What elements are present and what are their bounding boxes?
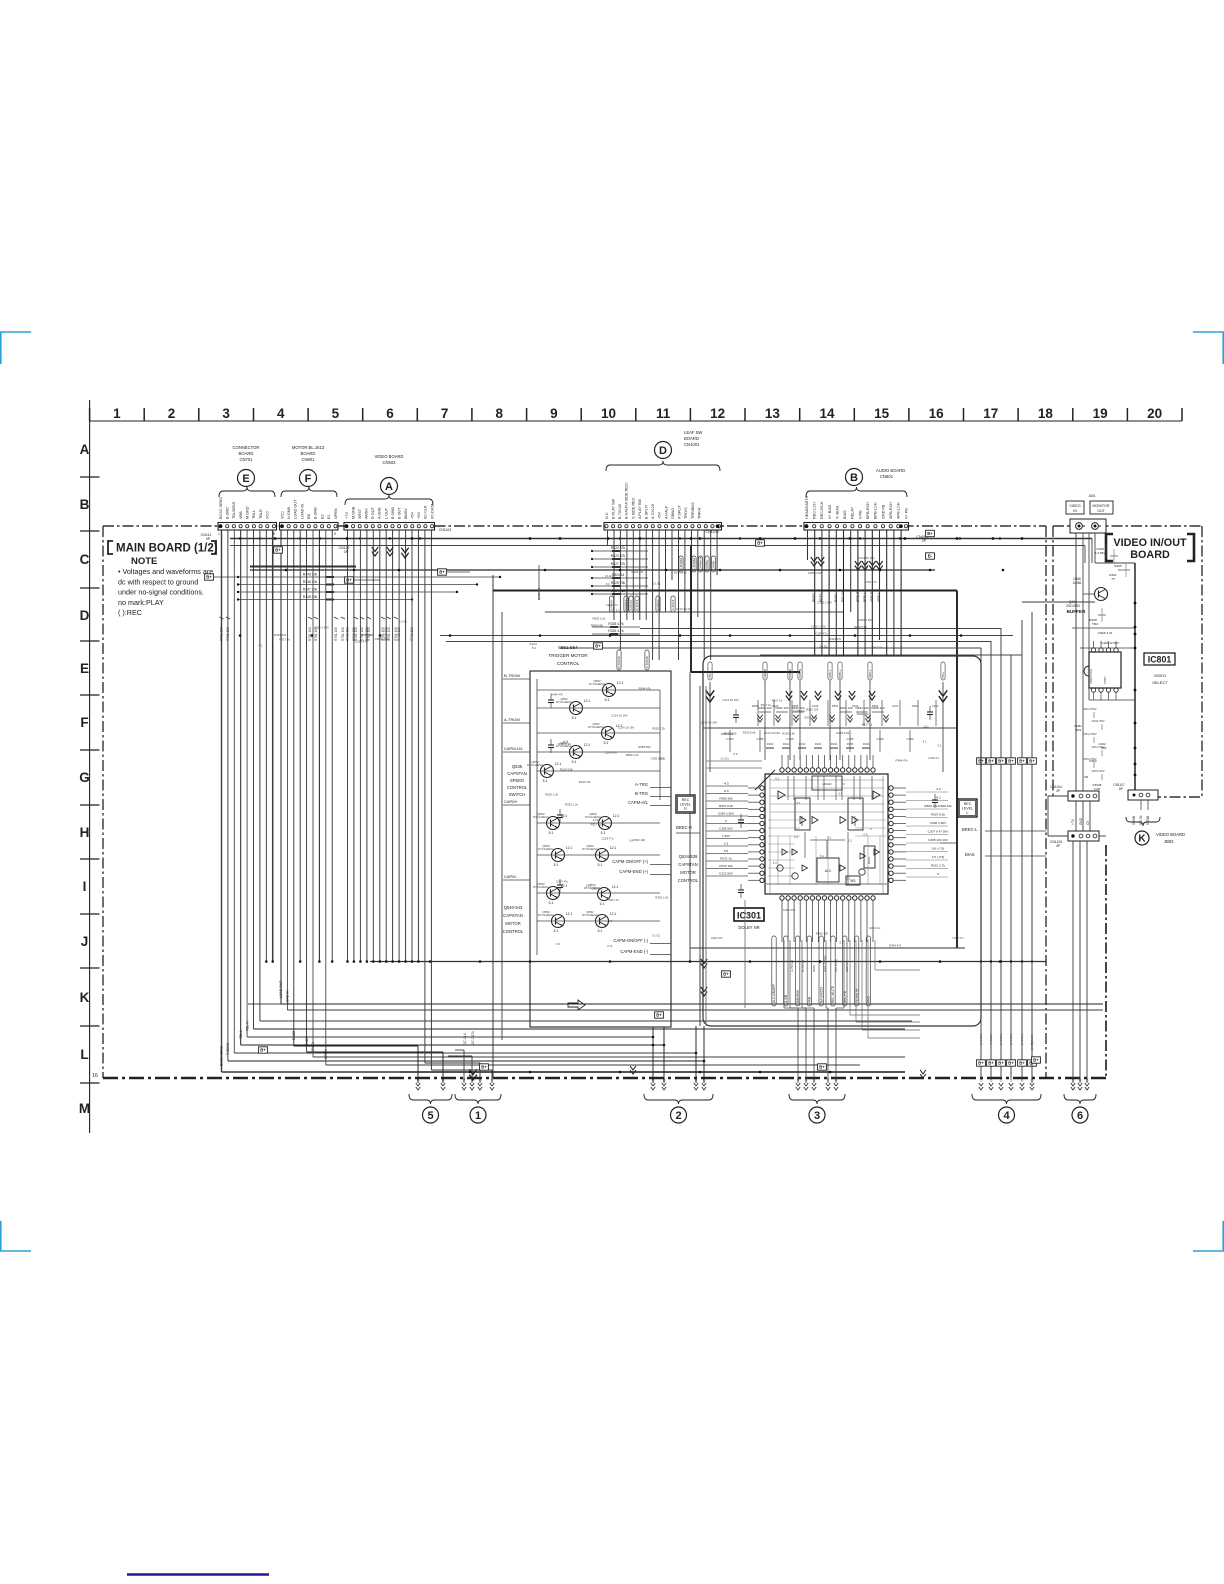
svg-text:R761 150: R761 150 <box>308 627 312 641</box>
svg-text:R219 5.6k: R219 5.6k <box>854 625 867 629</box>
svg-text:XRST: XRST <box>358 508 362 519</box>
svg-text:B+: B+ <box>978 1061 984 1066</box>
svg-text:C310 0.1: C310 0.1 <box>591 886 603 890</box>
svg-text:2: 2 <box>675 1110 681 1122</box>
svg-text:0.1 E1: 0.1 E1 <box>721 757 730 761</box>
svg-text:(A-5.5V): (A-5.5V) <box>989 1034 993 1045</box>
svg-text:5.1: 5.1 <box>259 644 263 648</box>
svg-text:BIAS: BIAS <box>843 510 847 519</box>
svg-text:A-HALF: A-HALF <box>656 599 660 610</box>
svg-text:R344 47k: R344 47k <box>274 633 287 637</box>
svg-text:CAPM-H/L: CAPM-H/L <box>699 555 703 570</box>
svg-text:R346: R346 <box>863 742 870 746</box>
svg-text:REC-RCH: REC-RCH <box>820 501 824 519</box>
svg-text:MS: MS <box>850 879 856 883</box>
svg-text:B+: B+ <box>998 759 1004 764</box>
svg-text:-6.6: -6.6 <box>723 789 729 793</box>
svg-text:R658 680: R658 680 <box>638 745 651 749</box>
svg-text:B: B <box>850 472 858 484</box>
svg-text:REC-R: REC-R <box>763 668 767 679</box>
svg-text:DTC114ESA: DTC114ESA <box>588 725 604 729</box>
svg-text:A PLAY SW: A PLAY SW <box>638 499 642 519</box>
svg-text:R658 680: R658 680 <box>591 624 604 628</box>
svg-text:B+: B+ <box>1019 1061 1025 1066</box>
svg-text:5.1: 5.1 <box>532 646 537 650</box>
svg-text:N.C: N.C <box>605 512 609 519</box>
svg-text:TRR/A: TRR/A <box>697 507 701 519</box>
svg-text:12.1: 12.1 <box>610 912 617 916</box>
svg-text:V+ PB: V+ PB <box>904 508 908 519</box>
svg-text:BOARD: BOARD <box>684 436 699 441</box>
svg-text:ALC-ON/OFF: ALC-ON/OFF <box>772 984 776 1003</box>
svg-text:C214 10 16V: C214 10 16V <box>611 714 627 718</box>
svg-text:PB-L: PB-L <box>941 671 945 678</box>
svg-text:9: 9 <box>334 532 336 536</box>
svg-text:N.GNB: N.GNB <box>287 507 291 519</box>
svg-text:5.1: 5.1 <box>600 902 605 906</box>
svg-text:LOGIC: LOGIC <box>822 782 832 786</box>
svg-text:BUFFER: BUFFER <box>1067 609 1086 614</box>
svg-text:C203 47u: C203 47u <box>864 580 877 584</box>
svg-text:A-4/B: A-4/B <box>784 995 788 1003</box>
svg-text:TRO/S: TRO/S <box>684 507 688 519</box>
svg-text:0.6: 0.6 <box>556 942 560 946</box>
svg-text:M.GND: M.GND <box>246 506 250 519</box>
svg-text:5.1: 5.1 <box>840 941 844 945</box>
svg-text:4: 4 <box>1003 1110 1010 1122</box>
svg-text:11: 11 <box>656 406 671 421</box>
svg-text:B+: B+ <box>988 759 994 764</box>
svg-text:2P: 2P <box>922 539 927 543</box>
svg-text:IN: IN <box>1073 509 1077 513</box>
svg-text:A: A <box>80 442 90 457</box>
svg-text:16: 16 <box>929 406 945 421</box>
svg-text:R344 47k: R344 47k <box>896 758 909 762</box>
svg-text:(A-5.5V): (A-5.5V) <box>979 1034 983 1045</box>
svg-text:12.1: 12.1 <box>584 699 591 703</box>
svg-text:IC801: IC801 <box>1148 655 1172 665</box>
svg-text:TBLL: TBLL <box>252 510 256 519</box>
svg-text:R309 22k R308 10k: R309 22k R308 10k <box>924 804 952 808</box>
svg-text:DTC114ESA: DTC114ESA <box>538 847 554 851</box>
svg-text:E: E <box>242 473 249 485</box>
svg-text:NA-EN/25Y: NA-EN/25Y <box>819 986 823 1003</box>
svg-text:5.1: 5.1 <box>598 863 603 867</box>
svg-text:7: 7 <box>441 406 449 421</box>
svg-text:E: E <box>80 661 89 676</box>
svg-text:VR: VR <box>1084 775 1089 779</box>
svg-text:APB-R: APB-R <box>798 668 802 678</box>
svg-text:TBL-L: TBL-L <box>239 1030 243 1039</box>
svg-text:5.1: 5.1 <box>938 743 942 747</box>
svg-text:12.1: 12.1 <box>566 912 573 916</box>
svg-text:9: 9 <box>550 406 558 421</box>
svg-text:4P: 4P <box>1056 789 1060 793</box>
svg-text:12.1: 12.1 <box>555 762 562 766</box>
svg-text:CAPM+: CAPM+ <box>705 560 709 571</box>
svg-text:LOAD OUT: LOAD OUT <box>294 499 298 519</box>
svg-text:R219 5.6k: R219 5.6k <box>560 768 573 772</box>
svg-text:5.1: 5.1 <box>828 836 832 840</box>
svg-text:20: 20 <box>1147 406 1162 421</box>
svg-text:R748 10k: R748 10k <box>303 595 318 599</box>
svg-text:LOAD-IN: LOAD-IN <box>286 990 290 1004</box>
svg-text:1: 1 <box>218 532 220 536</box>
svg-text:DTC114ESA: DTC114ESA <box>582 847 598 851</box>
svg-text:5.1: 5.1 <box>604 741 609 745</box>
svg-text:(2): (2) <box>989 1078 993 1082</box>
svg-text:C203 47u: C203 47u <box>793 709 806 713</box>
svg-text:C214 10 16V: C214 10 16V <box>858 556 874 560</box>
svg-text:CONTROL: CONTROL <box>503 929 524 934</box>
svg-text:B HALF/A SIDE REC/: B HALF/A SIDE REC/ <box>625 481 629 519</box>
svg-text:0.1 E1: 0.1 E1 <box>653 582 662 586</box>
svg-text:12.1: 12.1 <box>610 846 617 850</box>
svg-text:LEAF SW: LEAF SW <box>684 430 702 435</box>
svg-text:1.2: 1.2 <box>848 839 852 843</box>
svg-text:R738 150: R738 150 <box>410 627 414 641</box>
svg-text:R342: R342 <box>799 742 806 746</box>
svg-text:BREC-R: BREC-R <box>676 825 692 830</box>
svg-text:EB: EB <box>307 513 311 519</box>
svg-text:BOARD: BOARD <box>1130 549 1170 561</box>
svg-text:H: H <box>80 825 90 840</box>
svg-text:R552 2.2k: R552 2.2k <box>593 616 606 620</box>
svg-text:(2H 1N-3): (2H 1N-3) <box>834 959 838 972</box>
svg-text:A-TRGM: A-TRGM <box>692 558 696 571</box>
svg-text:14: 14 <box>819 406 835 421</box>
svg-text:5.1: 5.1 <box>543 779 548 783</box>
svg-text:C214 10 16V: C214 10 16V <box>676 607 692 611</box>
svg-text:DTC114ESA: DTC114ESA <box>538 913 554 917</box>
svg-text:C355 1 50V: C355 1 50V <box>858 618 873 622</box>
svg-text:BPB-RCH: BPB-RCH <box>866 502 870 519</box>
svg-text:1 50V: 1 50V <box>722 834 731 838</box>
svg-text:OPEN: OPEN <box>324 1049 328 1059</box>
svg-text:L: L <box>80 1047 88 1062</box>
svg-text:under no-signal conditions.: under no-signal conditions. <box>118 588 204 597</box>
svg-text:C355 1 50V: C355 1 50V <box>808 571 823 575</box>
svg-text:+5V: +5V <box>658 512 662 519</box>
svg-text:R344 47k: R344 47k <box>632 570 645 574</box>
svg-text:R658 680: R658 680 <box>361 633 374 637</box>
svg-text:DTC114ESA: DTC114ESA <box>533 885 549 889</box>
svg-text:R317 1k: R317 1k <box>609 898 620 902</box>
svg-text:16: 16 <box>92 1073 98 1079</box>
svg-text:CN1108: CN1108 <box>706 530 719 534</box>
svg-text:2.3: 2.3 <box>773 861 777 865</box>
svg-text:CN801: CN801 <box>301 457 315 462</box>
svg-text:B.GNB: B.GNB <box>314 507 318 519</box>
svg-text:DTC114ESA: DTC114ESA <box>533 815 549 819</box>
svg-text:50V: 50V <box>1101 746 1106 750</box>
svg-text:9P: 9P <box>206 537 211 541</box>
svg-text:C310 0.1: C310 0.1 <box>928 756 940 760</box>
svg-text:Q534-539: Q534-539 <box>679 854 698 859</box>
svg-text:LOAD IN: LOAD IN <box>300 504 304 519</box>
svg-text:C355 1 50V: C355 1 50V <box>314 625 329 629</box>
svg-text:R317 1k: R317 1k <box>591 823 602 827</box>
svg-text:PB-R: PB-R <box>708 670 712 678</box>
svg-text:5.1: 5.1 <box>572 716 577 720</box>
svg-text:3: 3 <box>222 406 230 421</box>
svg-text:BREC-L: BREC-L <box>812 589 816 602</box>
svg-text:6: 6 <box>1077 1110 1083 1122</box>
svg-text:B-: B- <box>928 554 933 559</box>
svg-text:R344: R344 <box>831 742 838 746</box>
svg-text:Q535: Q535 <box>512 764 523 769</box>
svg-text:B PLAY SW: B PLAY SW <box>611 498 615 519</box>
svg-text:C355 1 50V: C355 1 50V <box>650 756 665 760</box>
svg-text:AUDIO BOARD: AUDIO BOARD <box>876 468 905 473</box>
svg-text:4.7k: 4.7k <box>862 565 868 569</box>
svg-text:5.1: 5.1 <box>775 776 779 780</box>
svg-text:0.6: 0.6 <box>629 839 633 843</box>
svg-text:C310 0.1: C310 0.1 <box>952 936 964 940</box>
svg-text:CHK 12 50V: CHK 12 50V <box>823 955 827 972</box>
svg-text:+7V: +7V <box>1071 818 1075 825</box>
svg-text:C464 12 50V: C464 12 50V <box>1101 641 1120 645</box>
svg-text:0.1 E1: 0.1 E1 <box>605 574 614 578</box>
svg-text:R344 47k: R344 47k <box>829 637 842 641</box>
svg-text:R326 4.7k: R326 4.7k <box>608 629 624 633</box>
svg-text:B+: B+ <box>1033 1058 1039 1063</box>
svg-text:R738 150: R738 150 <box>397 627 401 641</box>
svg-text:R761 150: R761 150 <box>220 627 224 641</box>
svg-text:2SC2603: 2SC2603 <box>1066 604 1080 608</box>
svg-text:R352: R352 <box>872 704 879 708</box>
svg-text:C313 50V: C313 50V <box>719 872 734 876</box>
svg-text:B+: B+ <box>481 1065 487 1070</box>
svg-text:A SPLIT: A SPLIT <box>678 504 682 519</box>
svg-text:VIDEO BOARD: VIDEO BOARD <box>374 454 403 459</box>
svg-text:R335 4.7k: R335 4.7k <box>608 622 624 626</box>
svg-text:IIC-CLK: IIC-CLK <box>424 505 428 519</box>
svg-text:RELAY: RELAY <box>851 506 855 519</box>
svg-text:VIDEO: VIDEO <box>1069 504 1080 508</box>
svg-text:R317 1k: R317 1k <box>862 723 873 727</box>
svg-text:0.1 E1: 0.1 E1 <box>820 645 829 649</box>
svg-text:C203 47u: C203 47u <box>605 751 618 755</box>
svg-text:6: 6 <box>386 406 394 421</box>
svg-text:R344 47k: R344 47k <box>857 712 870 716</box>
svg-text:APB-L: APB-L <box>828 669 832 678</box>
svg-text:L OUT: L OUT <box>384 507 388 519</box>
svg-text:5.1: 5.1 <box>549 901 554 905</box>
svg-text:R324 1k: R324 1k <box>612 573 625 577</box>
svg-text:B GNB: B GNB <box>391 507 395 519</box>
svg-text:BPB-LCH: BPB-LCH <box>874 502 878 519</box>
svg-text:CAPM-ON/OFF (-): CAPM-ON/OFF (-) <box>613 938 648 943</box>
svg-text:VCC: VCC <box>280 511 284 519</box>
svg-text:0.1 E1: 0.1 E1 <box>399 620 408 624</box>
svg-text:R552 2.2k: R552 2.2k <box>655 895 668 899</box>
svg-text:LOAD OUT: LOAD OUT <box>279 981 283 998</box>
svg-text:-4.5: -4.5 <box>723 782 729 786</box>
svg-text:A-TRGM: A-TRGM <box>504 717 520 722</box>
svg-text:3: 3 <box>814 1110 820 1122</box>
svg-text:2: 2 <box>168 406 176 421</box>
svg-text:SWITCH: SWITCH <box>509 792 526 797</box>
svg-text:dc with respect to ground: dc with respect to ground <box>118 577 198 586</box>
svg-text:C815 50V: C815 50V <box>1091 769 1104 773</box>
svg-text:D: D <box>659 445 667 457</box>
svg-text:CAPM-: CAPM- <box>504 874 518 879</box>
svg-text:(B-PB): (B-PB) <box>1030 1041 1034 1050</box>
svg-text:B+: B+ <box>1019 759 1025 764</box>
svg-text:MOTOR: MOTOR <box>505 921 521 926</box>
svg-text:BPB-R: BPB-R <box>856 591 860 602</box>
svg-text:R358: R358 <box>752 704 759 708</box>
svg-text:5: 5 <box>427 1110 433 1122</box>
svg-text:E2: E2 <box>320 514 324 519</box>
svg-text:R367 8.2k: R367 8.2k <box>719 804 734 808</box>
svg-text:C307 0.47 50V: C307 0.47 50V <box>928 830 950 834</box>
svg-text:CAPM-H/L: CAPM-H/L <box>628 800 649 805</box>
svg-text:DOLBY NR: DOLBY NR <box>738 925 759 930</box>
svg-text:DTC114ESA: DTC114ESA <box>589 682 605 686</box>
svg-text:C320: C320 <box>772 704 779 708</box>
svg-text:R552 2.2k: R552 2.2k <box>558 742 571 746</box>
svg-text:ENCS: ENCS <box>305 1036 309 1046</box>
svg-text:VIDEO BOARD: VIDEO BOARD <box>1156 832 1185 837</box>
svg-text:R343: R343 <box>815 742 822 746</box>
svg-text:DOLBY: DOLBY <box>800 816 804 826</box>
svg-text:13: 13 <box>765 406 781 421</box>
svg-text:RELAY: RELAY <box>841 590 845 602</box>
svg-text:CAPSTAN: CAPSTAN <box>678 862 697 867</box>
svg-text:R344 47k: R344 47k <box>551 692 564 696</box>
svg-text:4: 4 <box>277 406 285 421</box>
svg-text:BREC-L: BREC-L <box>962 827 978 832</box>
svg-text:(A-5.5V): (A-5.5V) <box>1009 1034 1013 1045</box>
svg-text:CAPM-END (-): CAPM-END (-) <box>620 949 648 954</box>
svg-text:B-TRGM: B-TRGM <box>679 558 683 571</box>
svg-text:REC: REC <box>682 798 690 802</box>
svg-text:C355 1 50V: C355 1 50V <box>375 637 390 641</box>
svg-text:C203 47u: C203 47u <box>355 639 368 643</box>
svg-text:S SIDE REC: S SIDE REC <box>631 497 635 519</box>
svg-text:REC-MUTE: REC-MUTE <box>831 986 835 1003</box>
svg-text:BIAS: BIAS <box>867 857 871 864</box>
svg-text:F: F <box>80 715 88 730</box>
svg-text:R761 150: R761 150 <box>226 627 230 641</box>
svg-text:CN601: CN601 <box>880 474 894 479</box>
svg-text:B+: B+ <box>1029 759 1035 764</box>
svg-text:B+: B+ <box>1008 1061 1014 1066</box>
svg-text:L: L <box>967 811 969 815</box>
svg-text:C812 50V: C812 50V <box>1083 732 1096 736</box>
svg-text:R344 47k: R344 47k <box>889 944 902 948</box>
svg-text:B+: B+ <box>988 1061 994 1066</box>
svg-text:C214 10 16V: C214 10 16V <box>701 720 717 724</box>
svg-text:4.7k: 4.7k <box>593 818 599 822</box>
svg-text:C355 1 50V: C355 1 50V <box>811 624 826 628</box>
svg-text:12.1: 12.1 <box>923 725 929 729</box>
svg-text:CN1001: CN1001 <box>684 442 700 447</box>
svg-text:A GNB: A GNB <box>378 507 382 519</box>
svg-text:R340: R340 <box>767 742 774 746</box>
svg-text:LEVEL: LEVEL <box>680 803 691 807</box>
svg-text:IIC-DATA: IIC-DATA <box>430 503 434 519</box>
svg-text:MONITOR: MONITOR <box>1093 504 1110 508</box>
svg-text:5.1: 5.1 <box>572 760 577 764</box>
svg-text:ENCB: ENCB <box>292 1030 296 1040</box>
svg-text:R219 5.6k: R219 5.6k <box>782 732 795 736</box>
svg-text:C306 1 50V: C306 1 50V <box>930 821 947 825</box>
svg-text:4.7k: 4.7k <box>607 944 613 948</box>
svg-text:R552 2.2k: R552 2.2k <box>626 753 639 757</box>
svg-text:C214 10 16V: C214 10 16V <box>764 731 780 735</box>
svg-text:12.1: 12.1 <box>584 743 591 747</box>
svg-text:5.1: 5.1 <box>616 608 620 612</box>
svg-text:SELECT: SELECT <box>1152 680 1168 685</box>
svg-text:M: M <box>79 1101 90 1116</box>
svg-text:CONTROL: CONTROL <box>507 785 528 790</box>
svg-text:6551-554: 6551-554 <box>558 645 578 650</box>
svg-text:15: 15 <box>874 406 890 421</box>
svg-text:R362 100: R362 100 <box>633 838 646 842</box>
svg-text:B SPLIT: B SPLIT <box>645 504 649 519</box>
svg-text:IC301: IC301 <box>737 911 761 921</box>
svg-text:OPEN: OPEN <box>334 508 338 519</box>
svg-text:R747 10k: R747 10k <box>303 588 318 592</box>
svg-text:CAPM+: CAPM+ <box>504 799 519 804</box>
svg-text:A: A <box>385 481 393 493</box>
svg-text:4AB: 4AB <box>808 997 812 1003</box>
svg-text:A 70/120: A 70/120 <box>651 504 655 519</box>
svg-text:+5V: +5V <box>417 512 421 519</box>
svg-text:R360 50k: R360 50k <box>719 797 733 801</box>
svg-text:R341: R341 <box>783 742 790 746</box>
svg-text:B+: B+ <box>927 531 933 536</box>
svg-text:APB-RCH: APB-RCH <box>889 502 893 519</box>
svg-text:B+: B+ <box>757 541 763 546</box>
svg-text:4.5 (-3.5): 4.5 (-3.5) <box>932 855 945 859</box>
svg-text:R307 8.2k: R307 8.2k <box>931 813 946 817</box>
svg-text:19: 19 <box>1093 406 1108 421</box>
svg-text:DTC114ESA: DTC114ESA <box>556 700 572 704</box>
svg-text:B+: B+ <box>260 1048 266 1053</box>
svg-text:5.1: 5.1 <box>554 863 559 867</box>
svg-text:A-70/120: A-70/120 <box>645 656 649 669</box>
svg-text:VBB: VBB <box>239 511 243 519</box>
svg-text:3P: 3P <box>344 550 349 554</box>
svg-text:BCSC SENS: BCSC SENS <box>219 497 223 519</box>
svg-text:OUT: OUT <box>1097 509 1105 513</box>
svg-text:SPEED: SPEED <box>510 778 524 783</box>
svg-text:5.1: 5.1 <box>601 831 606 835</box>
svg-text:5.1: 5.1 <box>605 698 610 702</box>
svg-text:B-TRGM: B-TRGM <box>504 673 520 678</box>
svg-text:-6.2: -6.2 <box>935 796 941 800</box>
svg-text:B 70/120: B 70/120 <box>618 504 622 519</box>
svg-text:R327 47k: R327 47k <box>611 562 626 566</box>
svg-text:R362 100: R362 100 <box>816 932 829 936</box>
svg-text:CAPM-: CAPM- <box>712 561 716 571</box>
svg-text:REC-L: REC-L <box>868 669 872 679</box>
svg-text:R219 5.6k: R219 5.6k <box>805 716 818 720</box>
svg-text:LEVEL: LEVEL <box>962 807 973 811</box>
svg-text:AMS: AMS <box>867 996 871 1003</box>
svg-text:B-TRG: B-TRG <box>635 791 648 796</box>
svg-text:CAPM-END (+): CAPM-END (+) <box>619 869 648 874</box>
svg-text:TRIGGER MOTOR: TRIGGER MOTOR <box>548 653 588 658</box>
svg-text:0.6: 0.6 <box>864 833 868 837</box>
svg-text:VIDEOTRNS: VIDEOTRNS <box>1089 669 1093 684</box>
svg-text:12: 12 <box>710 406 725 421</box>
svg-text:B-70/120: B-70/120 <box>617 656 621 669</box>
